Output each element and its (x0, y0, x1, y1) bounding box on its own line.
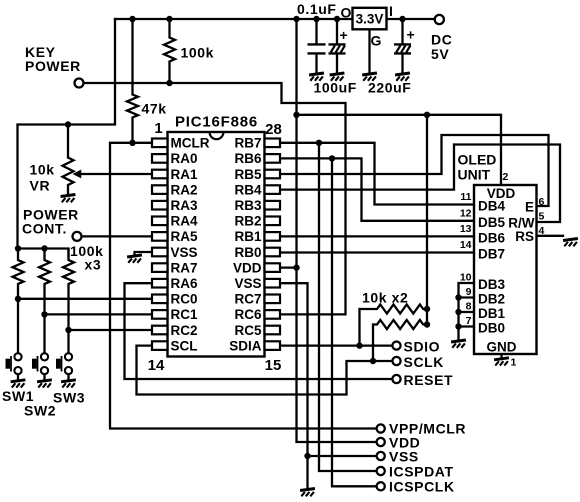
potentiometer VR1 10k body (63, 158, 74, 196)
wire SW1 top lead (17, 299, 19, 354)
ground under regulator G (362, 73, 377, 81)
wire RB6 to DB5 (280, 158, 474, 220)
wire 10k pullup 1 left lead drop (358, 309, 360, 346)
svg-text:SW3: SW3 (53, 390, 85, 406)
ground under SW2 (37, 380, 52, 388)
wire RA6 to RESET terminal (125, 283, 393, 379)
wire SW1 node to RC0 (18, 298, 152, 300)
junction RB7 ICSPDAT tap (316, 140, 322, 146)
svg-text:VR: VR (30, 178, 51, 194)
DC input terminal circle (435, 15, 444, 24)
ground at PIC left VSS pin 8 (127, 255, 142, 263)
SCLK terminal circle (392, 357, 400, 365)
wire SW3 bottom lead to ground (67, 374, 69, 380)
wire 10k pullup 2 left lead drop (372, 325, 374, 362)
resistor R1 100k pull-up (KEY POWER) (164, 19, 175, 83)
wire regulator ground lead (368, 29, 370, 73)
ICSPDAT terminal circle (377, 467, 385, 475)
junction RB6 ICSPCLK tap (329, 155, 335, 161)
junction DB1 bus (455, 309, 461, 315)
svg-text:3.3V: 3.3V (356, 11, 384, 26)
label OLED left pin names (478, 199, 505, 336)
junction VSS terminal tap (304, 453, 310, 459)
svg-text:RB0: RB0 (234, 245, 261, 260)
svg-text:SDIO: SDIO (404, 339, 441, 355)
junction pull-up rail left (15, 245, 21, 251)
wire RB5 to OLED E (280, 135, 549, 206)
switch SW2 pushbutton (32, 353, 48, 374)
IC U1 PIC16F886 body (168, 132, 265, 357)
junction SW2 node (41, 311, 47, 317)
wire SW3 top lead (67, 330, 69, 353)
wire VR top tap (67, 125, 69, 158)
svg-text:I: I (389, 3, 394, 19)
svg-text:POWER: POWER (25, 58, 81, 74)
svg-text:15: 15 (265, 357, 282, 374)
svg-text:MCLR: MCLR (171, 136, 210, 151)
svg-text:VSS: VSS (389, 449, 419, 465)
svg-text:SCL: SCL (171, 338, 198, 353)
svg-text:RB4: RB4 (234, 182, 261, 197)
wire 0.1uF leads (315, 19, 317, 74)
label PIC right pin names (229, 136, 262, 354)
wire OLED RS to ground (537, 235, 564, 237)
wire PIC right VSS to ground and VSS terminal (280, 283, 308, 489)
svg-text:RB7: RB7 (234, 136, 261, 151)
svg-text:RC0: RC0 (171, 292, 198, 307)
junction 10k R6 right (424, 306, 430, 312)
wire rail left drop to VR and pull-up rail (18, 19, 116, 249)
svg-text:0.1uF: 0.1uF (297, 1, 337, 17)
wire OLED GND pin lead (500, 354, 502, 358)
svg-text:1: 1 (154, 120, 162, 137)
junction SCLK pull-up (370, 358, 376, 364)
svg-text:RC1: RC1 (171, 307, 198, 322)
svg-text:+: + (407, 27, 416, 43)
svg-text:RC6: RC6 (234, 307, 261, 322)
ground under 0.1uF (309, 73, 324, 81)
ground under VR1 (61, 195, 76, 203)
svg-text:DB1: DB1 (478, 306, 505, 321)
svg-text:RA0: RA0 (171, 151, 198, 166)
svg-text:+: + (340, 27, 349, 43)
svg-text:RA7: RA7 (171, 260, 198, 275)
ground under 220uF (395, 73, 410, 81)
wire MCLR net: 47k bottom to MCLR pin and VPP/MCLR terminal (110, 143, 377, 429)
wire SCL to SCLK terminal (137, 346, 393, 395)
wire RB4 to OLED R/W (280, 145, 560, 223)
label OLED pin numbers left (460, 191, 472, 327)
wire RB7 to DB4 (280, 143, 474, 205)
svg-text:ICSPDAT: ICSPDAT (389, 464, 454, 480)
svg-text:RB1: RB1 (234, 229, 261, 244)
svg-text:8: 8 (466, 301, 472, 313)
wire 10k x2 pullup feed from 3.3V line (426, 115, 428, 325)
svg-text:100uF: 100uF (314, 80, 357, 96)
junction 10k R7 right (424, 321, 430, 327)
svg-text:PIC16F886: PIC16F886 (175, 114, 258, 131)
wire SW1 bottom lead to ground (17, 374, 19, 380)
IC U1 right pin boxes (265, 139, 281, 350)
junction 100k bottom on KEY POWER wire (166, 80, 172, 86)
svg-text:GND: GND (487, 340, 517, 355)
label OLED right pin names (508, 200, 535, 245)
resistor R3 100k (SW1 pull-up) (13, 249, 24, 299)
junction 0.1uF on rail (313, 16, 319, 22)
svg-text:SDIA: SDIA (229, 338, 262, 353)
capacitor C2 100uF polarized (329, 44, 346, 53)
resistor R2 47k (MCLR pull-up) (127, 19, 138, 143)
svg-text:G: G (371, 33, 383, 49)
svg-text:SW2: SW2 (24, 403, 56, 419)
junction pull-up rail mid (41, 245, 47, 251)
svg-text:RB6: RB6 (234, 151, 261, 166)
wire RB1 to DB6 (280, 235, 474, 237)
svg-text:DB0: DB0 (478, 321, 505, 336)
ground on VSS net bottom (300, 489, 315, 497)
svg-text:x3: x3 (85, 257, 102, 273)
svg-text:RS: RS (515, 229, 534, 244)
svg-text:RA1: RA1 (171, 167, 198, 182)
svg-text:VSS: VSS (234, 276, 261, 291)
svg-text:5V: 5V (431, 46, 449, 62)
label OLED pin numbers right (539, 196, 545, 237)
svg-text:5: 5 (539, 211, 545, 223)
svg-text:RA4: RA4 (171, 214, 198, 229)
svg-text:DB3: DB3 (478, 277, 505, 292)
VDD terminal circle (377, 438, 385, 446)
svg-text:RB3: RB3 (234, 198, 261, 213)
junction 100uF on rail (334, 16, 340, 22)
svg-text:6: 6 (539, 196, 545, 208)
ground for OLED DB3-DB0 bus (451, 340, 466, 348)
ground at OLED RS pin 4 (563, 239, 578, 247)
wire 100uF leads (336, 19, 338, 74)
svg-text:DB2: DB2 (478, 292, 505, 307)
ground under 100uF (330, 73, 345, 81)
wire 220uF leads (401, 19, 403, 74)
VPP/MCLR terminal circle (377, 424, 385, 432)
svg-text:100k: 100k (181, 45, 215, 61)
svg-text:47k: 47k (142, 101, 167, 117)
junction 100k top on rail (166, 16, 172, 22)
svg-text:28: 28 (265, 121, 282, 138)
wire SDIA to SDIO terminal (280, 344, 393, 346)
junction 3.3V line split (293, 112, 299, 118)
svg-text:UNIT: UNIT (458, 167, 491, 183)
wire RB7 drop to ICSPDAT terminal (319, 143, 377, 471)
svg-text:RC7: RC7 (234, 292, 261, 307)
OLED UNIT module box (474, 185, 537, 354)
wire switch pull-up rail (18, 249, 69, 257)
junction MCLR node (129, 140, 135, 146)
junction SW1 node (15, 296, 21, 302)
capacitor C3 220uF polarized (394, 44, 411, 53)
junction VR top tap (65, 121, 71, 127)
svg-text:ICSPCLK: ICSPCLK (389, 479, 455, 495)
POWER CONT. terminal circle (73, 232, 82, 241)
junction 3.3V drop on rail (293, 16, 299, 22)
svg-text:E: E (525, 200, 534, 215)
voltage regulator U2 3.3V box (353, 8, 387, 30)
RESET terminal circle (392, 375, 400, 383)
resistor R6 10k (SDIO pull-up) (360, 305, 428, 314)
svg-text:220uF: 220uF (368, 80, 411, 96)
wire POWER CONT. to RA5 (81, 235, 152, 237)
svg-text:SCLK: SCLK (404, 354, 445, 370)
wire regulator input to DC terminal (387, 18, 435, 20)
wire SW2 top lead (43, 314, 45, 353)
svg-text:9: 9 (466, 286, 472, 298)
svg-text:10k x2: 10k x2 (362, 290, 408, 306)
KEY POWER terminal circle (75, 79, 84, 88)
capacitor C1 0.1uF plates (308, 44, 326, 53)
wire SW3 node to RC2 (69, 329, 153, 331)
ground under SW3 (61, 380, 76, 388)
svg-text:14: 14 (148, 357, 165, 374)
IC U1 left pin boxes (152, 139, 168, 350)
svg-text:4: 4 (539, 225, 545, 237)
potentiometer VR1 wiper arrow (74, 171, 80, 177)
svg-text:DB5: DB5 (478, 215, 505, 230)
wire RA1 to VR wiper (79, 173, 152, 175)
svg-text:10: 10 (460, 272, 472, 284)
junction DB2 bus (455, 294, 461, 300)
svg-text:13: 13 (460, 223, 472, 235)
ICSPCLK terminal circle (377, 482, 385, 490)
junction SW3 node (65, 327, 71, 333)
wire RB6 drop to ICSPCLK terminal (332, 158, 377, 486)
svg-text:RESET: RESET (404, 372, 454, 388)
wire PIC VDD pin to 3.3V vertical (280, 266, 297, 268)
resistor R4 100k (SW2 pull-up) (39, 249, 50, 315)
svg-text:RA5: RA5 (171, 229, 198, 244)
junction PIC VDD tap (293, 264, 299, 270)
junction 220uF on input wire (399, 16, 405, 22)
junction 10k x2 feed (424, 112, 430, 118)
switch SW1 pushbutton (6, 353, 22, 374)
svg-text:RB5: RB5 (234, 167, 261, 182)
svg-text:1: 1 (511, 357, 517, 369)
ground under SW1 (11, 380, 26, 388)
junction DB0 bus (455, 323, 461, 329)
wire OLED DB3-DB0 ground bus (459, 283, 475, 340)
wire 3.3V distribution: rail down to OLED VDD and PIC VDD and VDD terminal (297, 19, 502, 185)
svg-text:DB4: DB4 (478, 199, 505, 214)
svg-text:2: 2 (503, 171, 509, 183)
wire KEY POWER to RC6 (82, 83, 345, 314)
svg-text:VDD: VDD (233, 260, 262, 275)
junction SDIO pull-up (356, 342, 362, 348)
wire RB0 to DB7 (280, 251, 474, 253)
wire 3.3V top rail (115, 18, 353, 20)
svg-text:DB6: DB6 (478, 230, 505, 245)
svg-text:O: O (341, 5, 353, 21)
svg-text:14: 14 (460, 239, 472, 251)
svg-text:10k: 10k (30, 162, 55, 178)
svg-text:DB7: DB7 (478, 247, 505, 262)
junction 47k top on rail (129, 16, 135, 22)
svg-text:RC5: RC5 (234, 323, 261, 338)
svg-text:12: 12 (460, 207, 472, 219)
resistor R7 10k (SCLK pull-up) (373, 320, 427, 329)
svg-text:CONT.: CONT. (22, 221, 67, 237)
svg-text:RC2: RC2 (171, 323, 198, 338)
svg-text:RB2: RB2 (234, 214, 261, 229)
svg-text:OLED: OLED (458, 151, 497, 167)
switch SW3 pushbutton (56, 353, 72, 374)
ground under OLED GND pin 1 (494, 358, 509, 366)
label PIC left pin names (171, 136, 210, 354)
svg-text:7: 7 (466, 315, 472, 327)
svg-text:VSS: VSS (171, 245, 198, 260)
svg-text:11: 11 (460, 191, 471, 203)
wire PIC left VSS pin to ground (135, 252, 153, 256)
resistor R5 100k (SW3 pull-up) (63, 249, 74, 331)
SDIO terminal circle (392, 342, 400, 350)
svg-text:RA2: RA2 (171, 182, 198, 197)
wire SW2 bottom lead to ground (43, 374, 45, 380)
svg-text:RA6: RA6 (171, 276, 198, 291)
VSS terminal circle (377, 452, 385, 460)
svg-text:RA3: RA3 (171, 198, 198, 213)
wire SW2 node to RC1 (45, 313, 153, 315)
